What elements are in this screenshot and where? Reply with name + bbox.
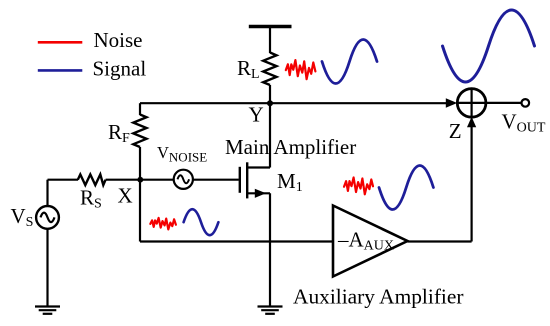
wire up to summing node xyxy=(471,127,473,242)
wire VS to RS xyxy=(48,179,79,181)
wire supply to RL xyxy=(269,27,271,54)
ground center xyxy=(258,307,283,314)
svg-text:Auxiliary Amplifier: Auxiliary Amplifier xyxy=(293,285,464,309)
svg-text:Z: Z xyxy=(449,119,462,143)
wire X to VNOISE xyxy=(140,179,174,181)
wire RL to drain (through node Y) xyxy=(269,85,271,168)
summing node circle xyxy=(457,89,486,118)
VDD supply bar xyxy=(249,25,292,29)
arrowhead up into summing node xyxy=(467,117,476,128)
svg-text:Main Amplifier: Main Amplifier xyxy=(225,135,356,159)
summing node plus horizontal xyxy=(457,102,486,104)
source VNOISE circle xyxy=(174,170,193,189)
wire RF bottom to node X xyxy=(139,147,141,180)
wire Y to summing node xyxy=(140,102,448,104)
op-amp AAUX triangle xyxy=(333,206,408,277)
svg-text:X: X xyxy=(118,184,133,208)
wire VS to ground xyxy=(46,229,48,307)
wire VNOISE to gate xyxy=(193,179,239,181)
wire X to auxiliary amplifier xyxy=(140,240,333,242)
legend noise line xyxy=(38,41,83,44)
output terminal circle xyxy=(522,99,530,107)
wire aux output xyxy=(408,240,472,242)
VS sine symbol xyxy=(41,213,55,223)
node Y junction dot xyxy=(267,100,273,106)
output signal sine (top right) xyxy=(443,10,535,82)
source VS circle xyxy=(36,206,59,229)
transistor M1 gate bar xyxy=(239,167,241,193)
wire RS to X xyxy=(106,179,140,181)
svg-text:Noise: Noise xyxy=(94,28,143,52)
noise squiggle at RL xyxy=(286,60,316,79)
resistor RL xyxy=(263,53,276,86)
arrowhead into summing node xyxy=(446,98,457,107)
legend signal line xyxy=(38,69,83,72)
wire Y column to RF top xyxy=(139,103,141,115)
wire X down xyxy=(139,180,141,242)
signal sine at RL xyxy=(322,40,377,84)
wire source to ground xyxy=(269,193,271,306)
noise squiggle at aux input xyxy=(344,178,373,195)
transistor M1 source arrow xyxy=(255,189,266,198)
svg-text:Signal: Signal xyxy=(93,57,147,81)
wire down to VS xyxy=(46,180,48,207)
transistor M1 drain lead xyxy=(246,166,270,168)
svg-text:Y: Y xyxy=(249,103,264,127)
signal sine at aux input xyxy=(379,166,433,210)
resistor RF xyxy=(133,115,146,148)
noise squiggle at X xyxy=(150,218,176,230)
ground left xyxy=(35,307,60,314)
signal sine at X xyxy=(184,209,219,235)
wire to output terminal xyxy=(486,102,522,104)
transistor M1 source lead xyxy=(246,192,270,194)
resistor RS xyxy=(78,174,106,185)
VNOISE sine symbol xyxy=(178,175,190,183)
transistor M1 channel bar xyxy=(246,162,248,198)
node X junction dot xyxy=(137,177,143,183)
summing node plus vertical xyxy=(471,89,473,118)
